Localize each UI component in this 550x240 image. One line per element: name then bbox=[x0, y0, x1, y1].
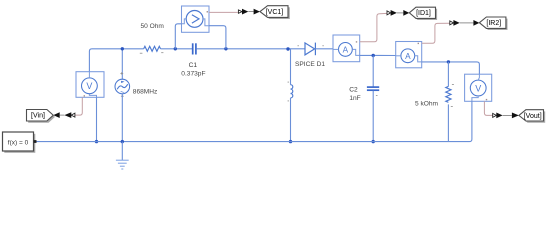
signal line ID1 bbox=[397, 12, 403, 14]
svg-text:5 kOhm: 5 kOhm bbox=[415, 100, 439, 107]
node junction inductor top bbox=[286, 47, 289, 50]
svg-text:1nF: 1nF bbox=[349, 95, 360, 102]
port mark Vout sensor red bbox=[486, 99, 487, 100]
capacitor C2 branch bottom bbox=[372, 91, 374, 142]
PS line Vin sensor to tag bbox=[75, 97, 82, 115]
wire Vin sensor minus to bottom net bbox=[96, 97, 98, 141]
goto tag Vin (points right) bbox=[27, 110, 56, 123]
svg-text:f(x) = 0: f(x) = 0 bbox=[8, 139, 29, 146]
capacitor C2 bbox=[367, 87, 379, 90]
port mark C2 bbox=[376, 94, 378, 97]
wire resistor to C1 bbox=[161, 48, 193, 50]
svg-text:[Vout]: [Vout] bbox=[524, 113, 542, 120]
port mark resistor right bbox=[161, 51, 163, 54]
goto tag VC1 bbox=[260, 6, 290, 19]
PS arrow hollow VC1 bbox=[238, 10, 242, 13]
PS line A2 to IR2 bbox=[422, 23, 450, 43]
svg-text:A: A bbox=[405, 52, 411, 61]
wire C1 to diode bbox=[196, 48, 305, 50]
signal arrow IR2 a bbox=[453, 20, 459, 26]
svg-text:V: V bbox=[475, 83, 481, 93]
node junction Vin sensor bottom bbox=[95, 140, 98, 143]
svg-text:A: A bbox=[343, 45, 349, 54]
plus mark AC bbox=[120, 72, 123, 75]
wire Vout sensor minus to bottom net bbox=[448, 101, 472, 141]
wire diode to ammeter A1 bbox=[315, 48, 333, 50]
node junction C2 top bbox=[372, 54, 375, 57]
signal arrow ID1 b bbox=[403, 10, 409, 16]
wire bottom net bbox=[37, 141, 449, 143]
PS arrow hollow Vin bbox=[71, 113, 75, 117]
port mark R2 minus bbox=[451, 105, 453, 108]
wire R2 bottom lead bbox=[447, 104, 449, 141]
PS arrow hollow Vout bbox=[493, 113, 497, 117]
port mark A1 red bbox=[356, 41, 357, 42]
signal line Vout bbox=[503, 114, 512, 116]
signal arrow ID1 a bbox=[391, 10, 397, 16]
AC source V1 top lead bbox=[121, 49, 123, 79]
inductor branch wire bottom bbox=[290, 98, 292, 142]
svg-text:0.373pF: 0.373pF bbox=[181, 71, 205, 78]
svg-text:V: V bbox=[86, 81, 92, 91]
voltage sensor Vout bbox=[465, 74, 492, 101]
wire main top net bbox=[89, 49, 143, 72]
svg-text:[IR2]: [IR2] bbox=[486, 20, 501, 27]
port mark Vin sensor red bbox=[84, 95, 85, 96]
svg-text:868MHz: 868MHz bbox=[133, 88, 158, 95]
node junction resistor R2 top bbox=[447, 60, 450, 63]
svg-text:C1: C1 bbox=[189, 62, 198, 69]
inductor branch wire top bbox=[290, 49, 292, 85]
port mark A2 red bbox=[418, 43, 419, 44]
node junction ground bbox=[121, 140, 124, 143]
PS line sensor U1 to VC1 bbox=[209, 11, 238, 13]
signal arrow Vin a bbox=[64, 112, 71, 118]
signal arrow VC1 a bbox=[242, 9, 248, 15]
PS line Vout sensor to tag bbox=[484, 101, 492, 115]
inductor L1 coil bbox=[291, 85, 293, 98]
PS arrow hollow IR2 bbox=[450, 21, 454, 25]
port mark diode anode bbox=[298, 44, 299, 47]
diode SPICE D1 bbox=[305, 43, 315, 56]
capacitor C1 bbox=[193, 43, 196, 54]
port mark inductor bottom bbox=[288, 100, 289, 101]
solver config block f(x)=0 bbox=[3, 132, 37, 153]
svg-text:SPICE D1: SPICE D1 bbox=[295, 61, 325, 68]
signal arrow IR2 b bbox=[473, 20, 479, 26]
AC source V1 bbox=[115, 79, 130, 94]
resistor 5 kOhm zigzag bbox=[446, 86, 451, 102]
svg-text:C2: C2 bbox=[349, 87, 358, 94]
svg-text:[ID1]: [ID1] bbox=[416, 10, 431, 17]
signal arrow VC1 b bbox=[254, 9, 260, 15]
goto tag Vout bbox=[519, 110, 545, 123]
signal line VC1 bbox=[248, 11, 253, 13]
minus mark AC bbox=[121, 95, 124, 97]
wire A2 output to Vout sensor bbox=[422, 62, 480, 74]
node junction inductor bottom bbox=[289, 140, 292, 143]
signal arrow Vout b bbox=[512, 113, 519, 119]
node junction AC top bbox=[121, 47, 124, 50]
node junction left of C1 bbox=[174, 47, 177, 50]
goto tag ID1 bbox=[409, 7, 437, 20]
ammeter A1 bbox=[333, 35, 360, 62]
signal line IR2 bbox=[460, 22, 474, 24]
svg-text:[VC1]: [VC1] bbox=[266, 9, 284, 16]
node junction right of C1 bbox=[224, 47, 227, 50]
goto tag IR2 bbox=[479, 17, 507, 30]
signal line Vin bbox=[60, 114, 65, 116]
port mark sensor U1 red bbox=[207, 11, 208, 12]
capacitor C2 branch top bbox=[372, 56, 374, 87]
resistor 50 Ohm zigzag bbox=[144, 46, 161, 51]
wire sensor U1 right loop bbox=[209, 26, 226, 49]
ammeter A2 bbox=[396, 42, 422, 68]
port mark diode cathode bbox=[322, 44, 323, 47]
wire sensor U1 left loop bbox=[175, 24, 181, 49]
signal arrow Vin b bbox=[53, 112, 59, 118]
node junction C2 bottom bbox=[372, 140, 375, 143]
PS arrow hollow ID1 bbox=[387, 11, 391, 15]
ground lead bbox=[121, 142, 123, 160]
ground symbol bbox=[116, 160, 129, 169]
PS line A1 to ID1 bbox=[360, 13, 387, 41]
port mark R2 plus bbox=[452, 83, 454, 86]
voltage sensor U1 (rotated, measures VC1) bbox=[182, 6, 210, 32]
voltage sensor Vin bbox=[76, 72, 104, 98]
svg-text:[Vin]: [Vin] bbox=[31, 113, 45, 120]
AC source V1 bottom lead bbox=[121, 94, 123, 142]
port mark resistor left bbox=[140, 52, 143, 55]
signal arrow Vout a bbox=[496, 113, 502, 119]
wire A1 to A2 bbox=[360, 54, 396, 56]
svg-text:50 Ohm: 50 Ohm bbox=[140, 23, 164, 30]
wire R2 top lead bbox=[447, 62, 449, 87]
port mark inductor top bbox=[288, 82, 289, 83]
